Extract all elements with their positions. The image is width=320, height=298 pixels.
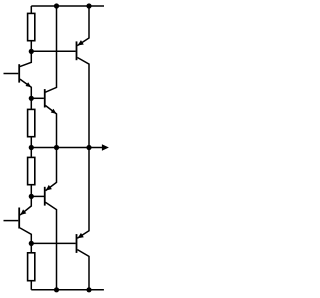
transistor Q1 bar	[18, 64, 20, 82]
wire: node C to R3	[30, 148, 32, 158]
output rail wire	[31, 147, 102, 149]
transistor Q3 bar	[76, 41, 78, 60]
wire: Q5 collector to bottom rail	[45, 202, 56, 289]
Q2 emitter arrow	[51, 109, 57, 114]
Q5 emitter arrow	[46, 185, 52, 191]
resistor R4	[28, 253, 35, 281]
wire: Q1 emitter	[20, 79, 31, 98]
wire: Q6 collector to bottom rail	[77, 250, 89, 290]
resistor R1	[28, 13, 35, 40]
junction dot top rail / Q2 collector	[54, 3, 59, 8]
wire: top rail to Q2 collector	[45, 6, 56, 92]
transistor Q2 bar	[44, 89, 46, 107]
transistor Q4 bar	[18, 208, 20, 229]
Q1 emitter arrow	[25, 82, 31, 87]
wire: Q4 base stub	[4, 220, 19, 222]
junction dot bottom rail / Q5 collector	[54, 287, 59, 292]
Q4 emitter arrow	[20, 209, 26, 215]
wire: R3 to node D	[30, 185, 32, 197]
wire: Q2 emitter	[45, 106, 56, 148]
junction dot top rail / Q3 emitter	[86, 3, 91, 8]
junction dot bottom rail / Q6 collector	[86, 287, 91, 292]
Q6 emitter arrow	[78, 233, 84, 238]
junction dot node D	[29, 194, 34, 199]
wire: R4 to bottom rail	[30, 281, 32, 290]
wire: output node to Q6 emitter	[77, 148, 89, 239]
wire: Q4 collector to node E	[20, 228, 31, 244]
transistor Q6 bar	[76, 234, 78, 253]
wire: Q3 collector to output node	[77, 58, 89, 148]
output arrow	[102, 144, 109, 150]
junction dot output node	[86, 145, 91, 150]
bottom supply rail	[31, 289, 104, 291]
transistor Q5 bar	[44, 187, 46, 206]
wire: node D to Q5 base	[31, 195, 44, 197]
junction dot output rail / Q2-Q5	[54, 145, 59, 150]
junction dot node A	[29, 49, 34, 54]
wire: node B to R2	[30, 98, 32, 109]
wire: R1 to node A	[30, 41, 32, 52]
wire: Q1 base stub	[4, 73, 19, 75]
wire: R2 to node C	[30, 137, 32, 148]
wire: node A to Q3 base	[31, 50, 75, 52]
wire: node A to Q1 collector	[20, 51, 31, 66]
wire: node B to Q2 base	[31, 97, 44, 99]
junction dot node B	[29, 96, 34, 101]
resistor R3	[28, 157, 35, 184]
wire: node E to R4	[30, 243, 32, 252]
wire: node E to Q6 base	[31, 242, 75, 244]
wire: output rail to Q5 emitter	[46, 148, 57, 191]
junction dot node E	[29, 241, 34, 246]
top supply rail	[31, 5, 104, 7]
resistor R2	[28, 109, 35, 136]
Q3 emitter arrow	[78, 40, 84, 45]
wire: top rail to Q3 emitter	[77, 6, 89, 46]
wire: node D to Q4 emitter	[20, 196, 31, 215]
wire: rail to R1	[30, 6, 32, 13]
junction dot node C	[29, 145, 34, 150]
